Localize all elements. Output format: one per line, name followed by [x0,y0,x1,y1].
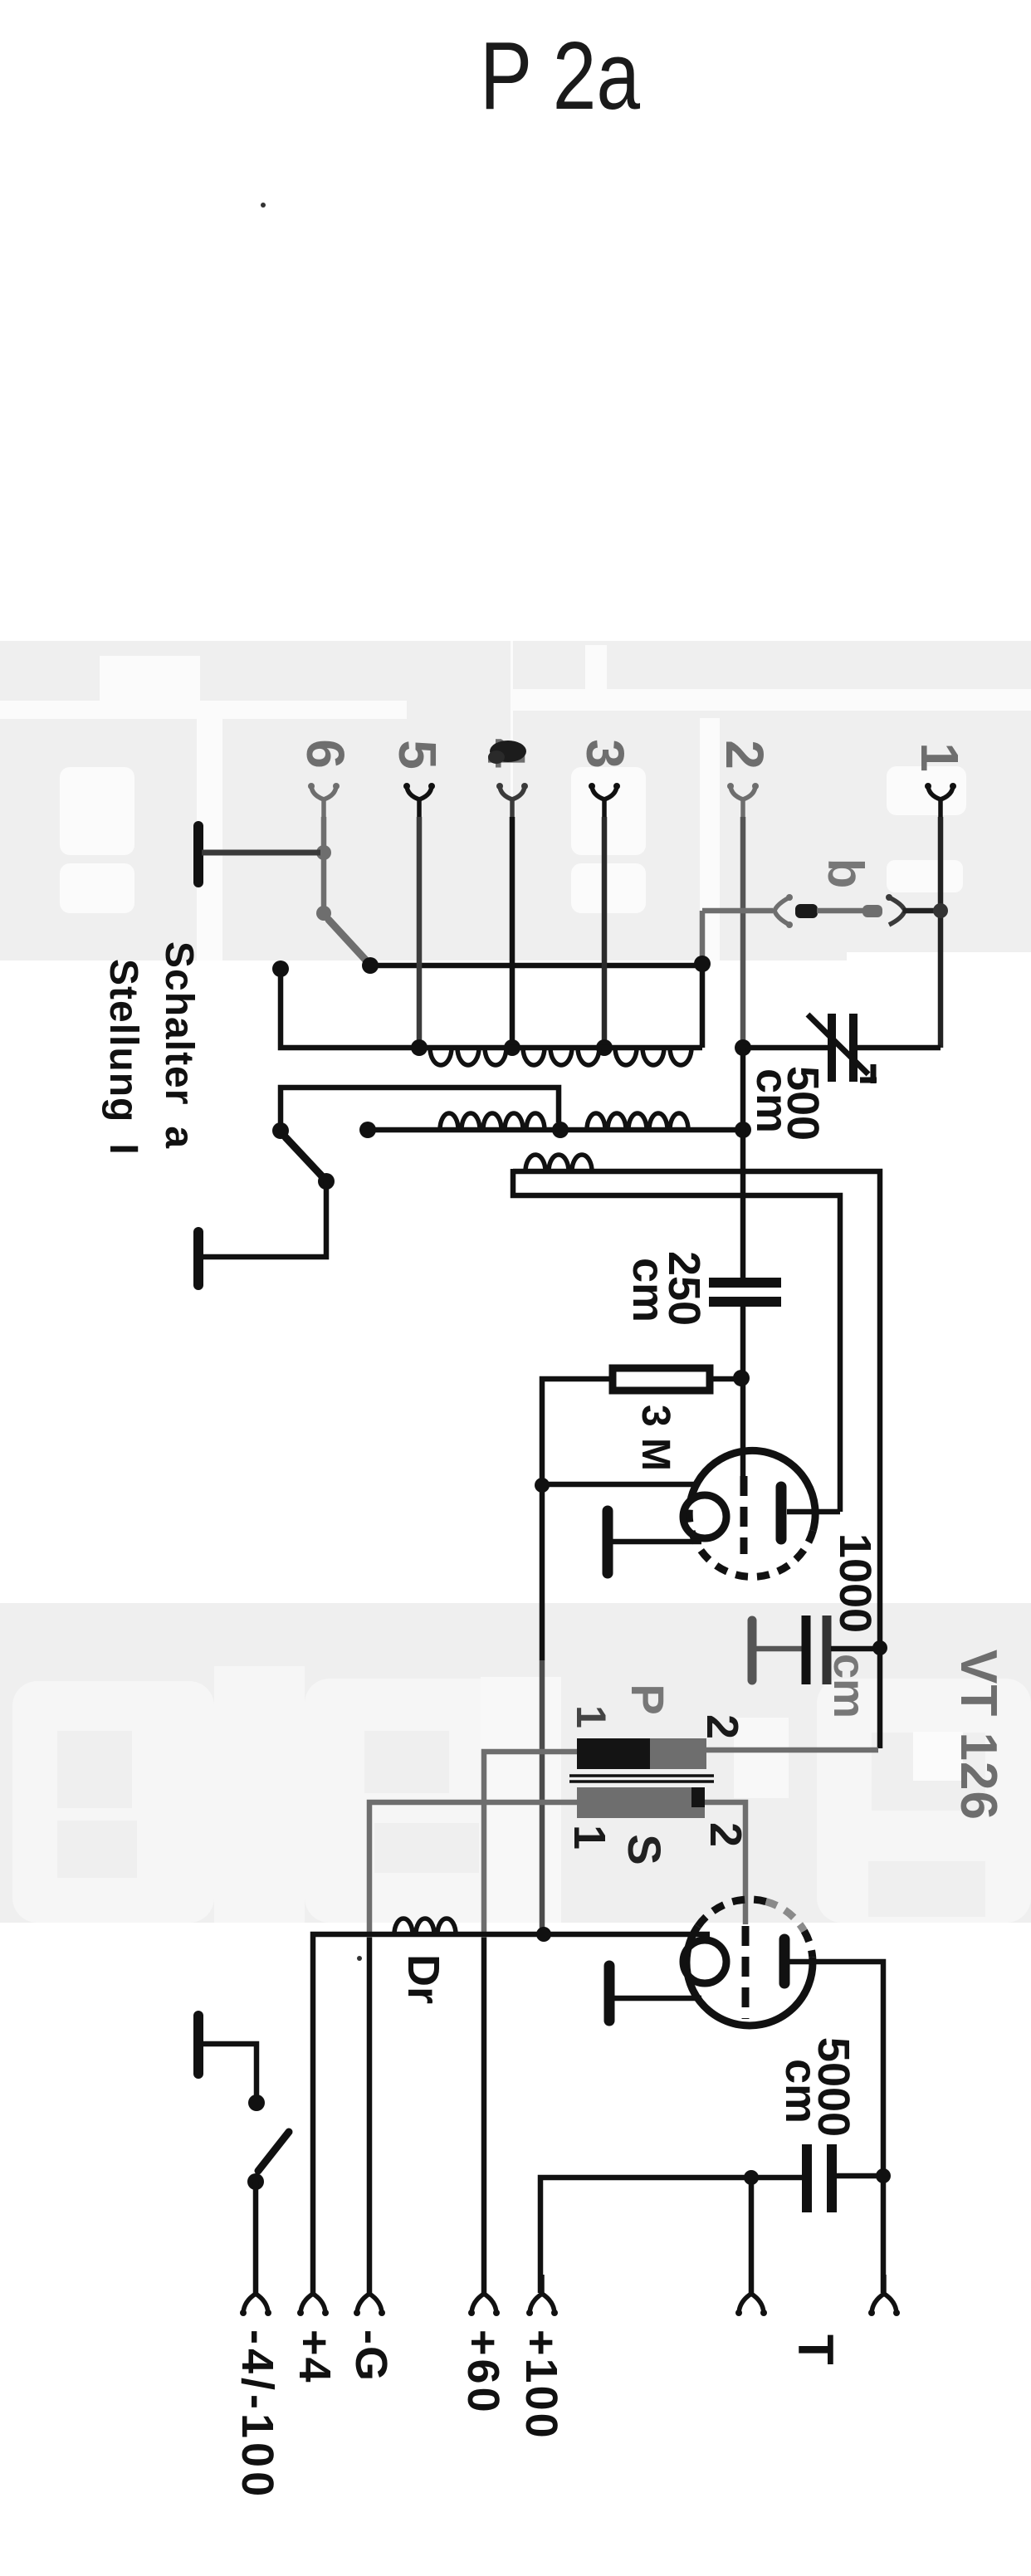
label Dr [398,1954,448,2004]
svg-text:3 M: 3 M [633,1405,677,1471]
label +100 [516,2329,566,2441]
tube V1 cathode stem [613,1539,701,1545]
terminal 3 [589,783,620,819]
svg-text:-G: -G [346,2329,396,2383]
node grid junction V1 [535,1478,550,1493]
wire b-link left drop [702,911,773,961]
switch S1 arm [329,920,367,961]
node L1 tap 5 [411,1039,428,1056]
svg-text:Schalter a: Schalter a [157,941,201,1149]
switch S1 pivot node [316,906,331,921]
watermark background bands [0,641,1031,1923]
wire P2 to anode line [706,1747,878,1753]
plug socket right of link b [886,894,905,925]
wire grid junction down to V2 [540,1485,545,1934]
tube V2 envelope dashed gray arc [766,1902,804,1931]
ink blot on label 4 [488,741,526,764]
wire T1 drop [749,2178,755,2293]
tube V2 cathode bar [604,1966,615,2021]
wire grid junction to V1 grid [542,1482,696,1488]
switch S1 contact node B [272,961,289,977]
label 1000 [830,1533,880,1633]
capacitor C500 plates [832,1014,853,1082]
label cm C1000 [824,1654,874,1718]
tube V2 envelope dashed black arc 2 [804,1931,813,1957]
svg-text:1000: 1000 [830,1533,880,1633]
wire P1 gray part [484,1752,577,1938]
label S2 [701,1822,750,1847]
wire terminal 1 [938,817,944,1048]
label +4 [290,2329,340,2384]
ground G1 bar [193,826,203,882]
wire terminal 6 [321,817,327,913]
label 3 M [633,1405,677,1471]
label VT 126 [950,1650,1007,1821]
svg-text:+4: +4 [290,2329,340,2384]
label terminal 6 [296,739,355,769]
coil L1 right end riser [700,964,706,1048]
node L1 tap 4 [504,1039,520,1056]
coil L1 [419,1048,702,1065]
coil L3 [525,1155,592,1171]
ground G1 stem wire [202,850,320,856]
svg-text:6: 6 [296,739,355,769]
svg-text:Dr: Dr [398,1954,448,2004]
label 500 [778,1066,828,1141]
svg-text:cm: cm [623,1258,673,1322]
transformer secondary S winding [577,1787,705,1818]
node L1 tap 3 [596,1039,613,1056]
node coil L2 left [359,1122,376,1138]
wire S2 to V2 grid line [705,1802,745,1924]
label 5000 [809,2037,858,2137]
svg-text:3: 3 [575,739,635,769]
wire V2 anode to T [789,1962,883,2293]
terminal T1 [735,2275,767,2316]
wire P1 to +60 [481,1938,487,2293]
wire link b to wire 1 [903,908,941,914]
switch S2 contact node [272,1122,289,1139]
svg-text:+60: +60 [458,2329,508,2416]
tube V1 envelope solid arc [691,1450,816,1530]
svg-text:Stellung I: Stellung I [101,959,145,1156]
switch S2 arm node [318,1173,335,1190]
capacitor C250 plates [709,1283,781,1302]
switch S3 arm [258,2132,289,2171]
resistor R left stub [542,1379,609,1485]
tube V2 envelope dashed black arc [698,1899,766,1926]
tube V1 envelope dashed arc [689,1498,813,1576]
wire terminal 2 lower [740,1306,746,1479]
plug pin left of link b [795,904,818,918]
label +60 [458,2329,508,2416]
label cm C250 [623,1258,673,1322]
tube V2 cathode stem [614,1996,701,2002]
label Schalter a [157,941,201,1149]
speck 2 [357,1956,362,1961]
ground G3 stem [202,2044,257,2097]
label terminal 1 [910,742,970,772]
terminal 2 [727,783,759,819]
capacitor C1000 ground bar [748,1620,757,1680]
wire contact B to coil L1 left end [281,969,419,1048]
svg-text:+100: +100 [516,2329,566,2441]
tube V1 cathode bar [603,1511,613,1573]
plug socket left of link b [774,894,793,928]
node resistor wire2 [733,1370,750,1386]
capacitor C1000 stub [831,1646,877,1652]
wire terminal 3 [602,817,608,1048]
node on wire 6 [316,845,331,860]
svg-text:2: 2 [715,740,774,770]
tube V2 envelope solid arc [687,1926,813,2026]
wire terminal 2 middle [740,1048,746,1278]
wire S2 contact to coil L2 junction [281,1088,559,1131]
label S [618,1834,671,1865]
switch S1 contact node A [362,957,379,974]
resistor R right stub [710,1376,735,1382]
ground G3 bar [193,2016,203,2074]
label terminal 4 [476,738,536,768]
transformer primary P winding [577,1738,706,1769]
terminal 4 [496,783,528,819]
svg-text:cm: cm [824,1654,874,1718]
label T [788,2334,843,2365]
node wire2 cap500 [735,1039,751,1056]
label -G [346,2329,396,2383]
label 250 [659,1251,709,1326]
wire coil L3 to grid-cap line [513,1171,880,1748]
speck [261,203,266,208]
terminal -4/-100 [240,2275,271,2316]
wire C5000 right stub [837,2173,880,2179]
terminal 1 [925,783,956,819]
svg-text:VT 126: VT 126 [950,1650,1007,1821]
capacitor C1000 plates [806,1615,827,1684]
svg-text:cm: cm [747,1068,797,1133]
node C1000 on anode line [872,1640,887,1655]
switch S3 pivot node [247,2173,264,2190]
wire +4 riser [313,1934,710,2293]
choke Dr [394,1919,456,1934]
label terminal 3 [575,739,635,769]
svg-text:P: P [622,1684,674,1714]
label S1 [564,1825,614,1850]
terminal +4 [297,2275,329,2316]
label Stellung I [101,959,145,1156]
ground G2 bar [193,1232,203,1285]
wire contact A to antenna coil taps [370,963,702,969]
link b wire [817,908,864,914]
terminal -G [354,2275,385,2316]
tube V1 grid dashed line [740,1476,748,1554]
node C5000 T branch [744,2170,759,2185]
node grid line V2 [536,1927,551,1942]
svg-text:-4/-100: -4/-100 [232,2329,282,2500]
wire S1 gray part [369,1802,577,1938]
node coil L2 junction [552,1122,569,1138]
label P2 [697,1714,747,1739]
tube V1 anode bar [776,1487,787,1539]
plug pin right of link b [862,905,882,917]
label terminal 5 [388,740,447,770]
label terminal 2 [715,740,774,770]
node L1 right top [694,956,711,972]
title P 2a [480,22,640,130]
node b on wire 1 [933,903,948,918]
wire coil L2 line [368,1127,743,1133]
wire S2 arm to ground [203,1181,326,1257]
svg-text:P 2a: P 2a [480,22,640,130]
wire terminal 5 [417,817,423,1048]
tube V2 grid dashed line [742,1926,750,2019]
wire S1 to -G [367,1938,373,2293]
wire coil L3 left to anode line [513,1169,840,1512]
terminal 5 [403,783,435,819]
svg-text:1: 1 [910,742,970,772]
tube V2 grid circle [683,1940,726,1983]
svg-text:b: b [818,858,873,889]
label -4/-100 [232,2329,282,2500]
svg-text:T: T [788,2334,843,2365]
wire cap500 left [743,1045,828,1051]
tube V1 grid circle [683,1495,726,1538]
terminal T2 [868,2275,900,2316]
svg-text:1: 1 [564,1825,614,1850]
wire tube V1 anode stem [787,1509,840,1515]
capacitor C1000 ground stem [756,1646,802,1652]
capacitor C5000 plates [807,2144,832,2212]
svg-text:1: 1 [568,1705,614,1728]
node C5000 anode line [876,2168,891,2183]
tube V2 anode bar [779,1939,790,1983]
terminal +100 [526,2275,558,2316]
switch S3 contact node [248,2095,265,2111]
svg-text:cm: cm [776,2059,826,2124]
terminal 6 [308,783,340,819]
label P [622,1684,674,1714]
switch S2 arm [286,1137,322,1176]
transformer core lines [569,1776,714,1782]
label P1 [568,1705,614,1728]
svg-text:5: 5 [388,740,447,770]
capacitor C500 arrow [808,1014,877,1083]
svg-text:2: 2 [697,1714,747,1739]
terminal +60 [468,2275,500,2316]
wire terminal 4 [510,817,515,1048]
label b [818,858,873,889]
wire cap500 right [858,1045,941,1051]
label cm C500 [747,1068,797,1133]
node wire2 coil L2 [735,1122,751,1138]
coil L2 [440,1113,688,1130]
wire S3 to terminal [253,2182,259,2293]
svg-text:S: S [618,1834,671,1865]
wire C5000 left to +100 [540,2178,802,2293]
wire terminal 2 upper [740,817,746,1048]
label cm C5000 [776,2059,826,2124]
resistor R 3M body [613,1368,710,1391]
